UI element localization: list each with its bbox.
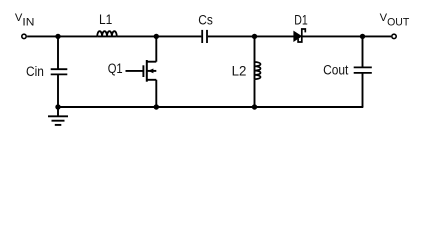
wire Cout to bottom rail xyxy=(362,73,364,107)
svg-text:Cs: Cs xyxy=(198,13,213,28)
wire bottom rail L2 to Cout xyxy=(255,106,364,108)
wire Q1 source to bottom rail xyxy=(155,80,157,107)
capacitor Cout xyxy=(323,63,372,78)
wire D1 cathode to junction C xyxy=(303,35,363,37)
wire junction C to VOUT terminal xyxy=(363,35,392,37)
svg-text:Cout: Cout xyxy=(323,63,349,78)
diode D1 (Schottky) xyxy=(293,12,307,42)
capacitor Cin xyxy=(26,64,67,79)
junction L2 / bottom rail xyxy=(252,104,257,109)
transistor Q1 (N-MOSFET) xyxy=(108,60,157,82)
junction A xyxy=(55,34,60,39)
wire Cs to junction B xyxy=(208,35,255,37)
svg-text:D1: D1 xyxy=(294,12,308,27)
wire Q1 drain to top rail xyxy=(155,36,157,61)
svg-text:Cin: Cin xyxy=(26,64,44,79)
wire Cin to ground junction xyxy=(57,74,59,107)
wire L2 to bottom rail xyxy=(254,79,256,107)
ground xyxy=(48,107,68,125)
wire junction C to Cout xyxy=(362,36,364,67)
inductor L2 xyxy=(232,62,261,79)
wire VIN to junction A xyxy=(27,35,58,37)
svg-text:VOUT: VOUT xyxy=(380,12,410,29)
terminal VIN xyxy=(22,34,26,38)
wire junction B to D1 anode xyxy=(255,35,294,37)
wire bottom rail ground to Q1 source xyxy=(58,106,156,108)
junction above Q1 xyxy=(154,34,159,39)
wire node above Q1 to Cs xyxy=(156,35,201,37)
junction C (Cout / VOUT) xyxy=(360,34,365,39)
svg-text:Q1: Q1 xyxy=(108,61,123,76)
svg-text:L1: L1 xyxy=(99,12,112,27)
capacitor Cs xyxy=(198,13,213,43)
inductor L1 xyxy=(97,12,117,36)
wire junction A to L1 xyxy=(58,35,97,37)
wire junction A to Cin xyxy=(57,36,59,69)
wire L1 to node above Q1 xyxy=(117,35,157,37)
svg-text:VIN: VIN xyxy=(15,12,34,29)
junction ground node xyxy=(55,104,60,109)
junction B (Cs / L2 / D1) xyxy=(252,34,257,39)
svg-text:L2: L2 xyxy=(232,63,247,78)
terminal VOUT xyxy=(392,34,396,38)
wire bottom rail Q1 source to L2 xyxy=(156,106,254,108)
wire junction B to L2 xyxy=(254,36,256,62)
junction Q1 source / bottom rail xyxy=(154,104,159,109)
